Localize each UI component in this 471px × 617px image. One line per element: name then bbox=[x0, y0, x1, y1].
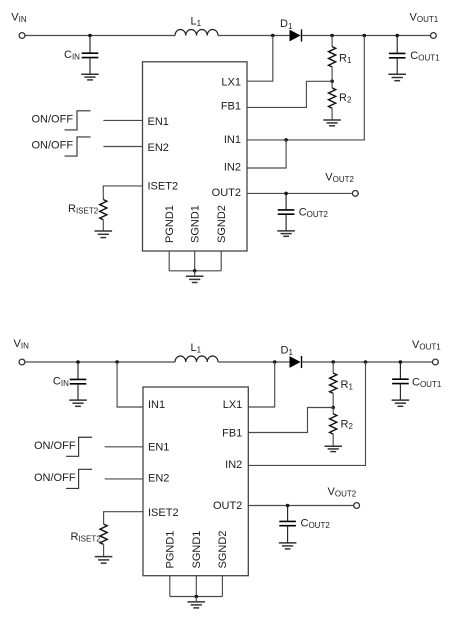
junction: LX1 riser node (bottom) bbox=[273, 360, 277, 364]
label COUT2 (top) bbox=[299, 206, 329, 219]
wire: EN2 input (top) bbox=[103, 146, 142, 148]
svg-text:IN2: IN2 bbox=[225, 459, 242, 471]
pin label EN2 (top) bbox=[148, 142, 169, 154]
pin label PGND1 (bottom) bbox=[165, 531, 177, 569]
svg-text:EN2: EN2 bbox=[148, 142, 169, 154]
label D1 (top) bbox=[280, 18, 293, 31]
junction: IN1 riser node (bottom) bbox=[115, 360, 119, 364]
signal ON/OFF for EN2 (bottom) bbox=[34, 469, 92, 488]
wire: R1 top stem (bottom) bbox=[332, 362, 334, 373]
junction: ground bus node (bottom) bbox=[195, 595, 199, 599]
capacitor COUT1 (bottom) bbox=[392, 362, 409, 400]
wire: OUT2 pin to terminal (bottom) bbox=[248, 505, 353, 507]
node VOUT1 label (bottom) bbox=[412, 339, 441, 352]
terminal VIN (bottom) bbox=[19, 359, 25, 365]
diode D1 (top) bbox=[290, 29, 302, 41]
svg-text:FB1: FB1 bbox=[222, 428, 242, 440]
wire: IN1 pin to rail (bottom) bbox=[117, 362, 143, 407]
junction: LX1 riser node (top) bbox=[271, 34, 275, 38]
svg-text:ISET2: ISET2 bbox=[148, 180, 179, 192]
svg-text:OUT2: OUT2 bbox=[213, 500, 242, 512]
junction: ground bus node (top) bbox=[193, 269, 197, 273]
terminal VOUT1 (top) bbox=[431, 33, 437, 39]
pin label EN1 (bottom) bbox=[148, 442, 169, 454]
svg-text:L1: L1 bbox=[191, 16, 202, 29]
svg-text:FB1: FB1 bbox=[221, 100, 241, 112]
wire: R2 top stem (top) bbox=[331, 81, 333, 88]
diode D1 (bottom) bbox=[290, 356, 302, 368]
label COUT1 (top) bbox=[410, 50, 440, 63]
pin label FB1 (bottom) bbox=[222, 428, 242, 440]
pin label SGND2 (bottom) bbox=[217, 531, 229, 569]
wire: IN2 pin to IN1 wire (top) bbox=[247, 140, 286, 168]
wire: ground bus (top) bbox=[169, 270, 221, 272]
resistor RISET2 (bottom) bbox=[100, 524, 107, 544]
node VIN label (top) bbox=[11, 11, 27, 24]
wire: EN1 input (bottom) bbox=[105, 446, 143, 448]
pin label FB1 (top) bbox=[221, 100, 241, 112]
capacitor CIN (top) bbox=[82, 36, 99, 75]
wire: R2 bottom stem (bottom) bbox=[332, 434, 334, 446]
junction: COUT2 node (top) bbox=[284, 192, 288, 196]
label R1 (top) bbox=[339, 53, 352, 66]
resistor R2 (top) bbox=[329, 88, 336, 108]
svg-text:OUT2: OUT2 bbox=[212, 187, 241, 199]
label RISET2 (top) bbox=[68, 203, 99, 216]
signal ON/OFF for EN1 (bottom) bbox=[34, 437, 92, 456]
pin label LX1 (bottom) bbox=[223, 399, 243, 411]
junction: R1 top node (bottom) bbox=[331, 360, 335, 364]
wire: IN2 pin to rail (bottom) bbox=[248, 362, 365, 465]
wire: ISET2 pin to RISET2 (bottom) bbox=[104, 512, 143, 524]
capacitor COUT2 (top) bbox=[278, 193, 295, 231]
svg-text:EN2: EN2 bbox=[148, 473, 169, 485]
wire: VIN rail to inductor (top) bbox=[25, 35, 175, 37]
pin label OUT2 (bottom) bbox=[213, 500, 242, 512]
svg-text:COUT1: COUT1 bbox=[410, 50, 440, 63]
terminal VIN (top) bbox=[19, 33, 25, 39]
junction: R1-R2 divider node (top) bbox=[330, 80, 334, 84]
svg-text:VOUT1: VOUT1 bbox=[412, 339, 441, 352]
wire: IN1 pin to rail (top) bbox=[247, 36, 364, 140]
svg-text:ON/OFF: ON/OFF bbox=[34, 472, 76, 484]
inductor L1 (top) bbox=[175, 30, 218, 36]
junction: COUT2 node (bottom) bbox=[286, 504, 290, 508]
svg-text:D1: D1 bbox=[280, 18, 293, 31]
node VIN label (bottom) bbox=[14, 338, 30, 351]
svg-text:L1: L1 bbox=[191, 342, 202, 355]
junction: R1 top node (top) bbox=[330, 34, 334, 38]
svg-text:SGND1: SGND1 bbox=[190, 205, 202, 243]
svg-text:SGND1: SGND1 bbox=[191, 531, 203, 569]
svg-text:ON/OFF: ON/OFF bbox=[34, 440, 76, 452]
terminal VOUT1 (bottom) bbox=[433, 359, 439, 365]
wire: SGND1 stub (bottom) bbox=[195, 576, 197, 597]
svg-text:ON/OFF: ON/OFF bbox=[32, 140, 74, 152]
label R1 (bottom) bbox=[341, 379, 354, 392]
IC U1 block (top) bbox=[143, 62, 248, 251]
pin label EN2 (bottom) bbox=[148, 473, 169, 485]
svg-text:R2: R2 bbox=[341, 419, 354, 432]
ground: COUT1 (top) bbox=[388, 74, 406, 80]
pin label LX1 (top) bbox=[221, 76, 241, 88]
label RISET2 (bottom) bbox=[71, 531, 102, 544]
pin label IN1 (bottom) bbox=[148, 399, 165, 411]
wire: OUT2 pin to terminal (top) bbox=[247, 192, 352, 194]
svg-text:IN2: IN2 bbox=[224, 162, 241, 174]
wire: PGND1 stub (bottom) bbox=[169, 576, 171, 597]
label CIN (top) bbox=[64, 49, 80, 62]
wire: inductor to diode anode (top) bbox=[218, 35, 290, 37]
junction: IN2 riser node (bottom) bbox=[364, 360, 368, 364]
svg-text:R1: R1 bbox=[341, 379, 354, 392]
IC U1 block (bottom) bbox=[143, 387, 248, 576]
svg-text:VIN: VIN bbox=[14, 338, 30, 351]
capacitor CIN (bottom) bbox=[70, 362, 87, 400]
junction: CIN node (bottom) bbox=[76, 360, 80, 364]
ground: RISET2 (top) bbox=[95, 231, 113, 238]
svg-text:R2: R2 bbox=[339, 92, 352, 105]
wire: R2 top stem (bottom) bbox=[332, 408, 334, 414]
pin label IN1 (top) bbox=[224, 134, 241, 146]
svg-text:CIN: CIN bbox=[64, 49, 80, 62]
pin label EN1 (top) bbox=[148, 116, 169, 128]
svg-text:VOUT2: VOUT2 bbox=[325, 171, 354, 184]
ground: COUT2 (top) bbox=[277, 231, 295, 236]
svg-text:LX1: LX1 bbox=[221, 76, 241, 88]
svg-text:COUT1: COUT1 bbox=[412, 377, 442, 390]
wire: SGND1 stub (top) bbox=[194, 251, 196, 271]
terminal VOUT2 (bottom) bbox=[354, 503, 360, 509]
junction: IN1 riser node (top) bbox=[363, 34, 367, 38]
resistor R2 (bottom) bbox=[330, 414, 337, 434]
label D1 (bottom) bbox=[281, 345, 294, 358]
resistor RISET2 (top) bbox=[100, 200, 107, 220]
ground: COUT2 (bottom) bbox=[279, 543, 297, 549]
junction: COUT1 node (bottom) bbox=[399, 360, 403, 364]
label COUT2 (bottom) bbox=[301, 518, 331, 531]
wire: diode to VOUT1 terminal (top) bbox=[302, 35, 430, 37]
svg-text:IN1: IN1 bbox=[224, 134, 241, 146]
svg-text:RISET2: RISET2 bbox=[68, 203, 99, 216]
wire: divider to FB1 pin (bottom) bbox=[248, 408, 333, 433]
resistor R1 (bottom) bbox=[330, 373, 337, 393]
node VOUT1 label (top) bbox=[410, 11, 439, 24]
svg-text:VOUT2: VOUT2 bbox=[328, 486, 357, 499]
svg-text:EN1: EN1 bbox=[148, 116, 169, 128]
wire: VIN rail to inductor (bottom) bbox=[25, 361, 175, 363]
node VOUT2 label (bottom) bbox=[328, 486, 357, 499]
label L1 (bottom) bbox=[191, 342, 202, 355]
svg-text:SGND2: SGND2 bbox=[217, 531, 229, 569]
wire: ISET2 pin to RISET2 (top) bbox=[103, 186, 142, 200]
wire: ground stem (top) bbox=[194, 271, 196, 277]
pin label PGND1 (top) bbox=[164, 205, 176, 243]
svg-text:PGND1: PGND1 bbox=[164, 205, 176, 243]
wire: EN1 input (top) bbox=[103, 119, 142, 121]
pin label SGND1 (top) bbox=[190, 205, 202, 243]
ground: CIN (top) bbox=[81, 74, 99, 80]
label COUT1 (bottom) bbox=[412, 377, 442, 390]
label R2 (top) bbox=[339, 92, 352, 105]
wire: divider to FB1 pin (top) bbox=[247, 81, 332, 107]
wire: RISET2 to ground (top) bbox=[102, 220, 104, 231]
svg-text:PGND1: PGND1 bbox=[165, 531, 177, 569]
label R2 (bottom) bbox=[341, 419, 354, 432]
ground: IC grounds (bottom) bbox=[188, 602, 206, 608]
capacitor COUT1 (top) bbox=[389, 36, 406, 75]
svg-text:RISET2: RISET2 bbox=[71, 531, 102, 544]
ground: COUT1 (bottom) bbox=[392, 400, 410, 406]
wire: inductor to diode anode (bottom) bbox=[218, 361, 290, 363]
wire: diode to VOUT1 terminal (bottom) bbox=[302, 361, 432, 363]
signal ON/OFF for EN2 (top) bbox=[32, 137, 91, 156]
pin label ISET2 (top) bbox=[148, 180, 179, 192]
capacitor COUT2 (bottom) bbox=[279, 506, 296, 543]
wire: R2 bottom stem (top) bbox=[331, 108, 333, 120]
wire: EN2 input (bottom) bbox=[105, 478, 143, 480]
svg-text:R1: R1 bbox=[339, 53, 352, 66]
junction: COUT1 node (top) bbox=[395, 34, 399, 38]
pin label ISET2 (bottom) bbox=[148, 507, 179, 519]
wire: R1 bottom stem (top) bbox=[331, 67, 333, 81]
svg-text:SGND2: SGND2 bbox=[216, 205, 228, 243]
label CIN (bottom) bbox=[53, 376, 69, 389]
ground: R2 (top) bbox=[323, 120, 341, 126]
svg-text:IN1: IN1 bbox=[148, 399, 165, 411]
wire: ground bus (bottom) bbox=[170, 596, 223, 598]
terminal VOUT2 (top) bbox=[352, 191, 358, 197]
svg-text:COUT2: COUT2 bbox=[301, 518, 331, 531]
svg-text:VOUT1: VOUT1 bbox=[410, 11, 439, 24]
wire: LX1 pin to rail (bottom) bbox=[248, 362, 274, 407]
svg-text:VIN: VIN bbox=[11, 11, 27, 24]
label L1 (top) bbox=[191, 16, 202, 29]
svg-text:LX1: LX1 bbox=[223, 399, 243, 411]
junction: CIN node (top) bbox=[88, 34, 92, 38]
pin label SGND2 (top) bbox=[216, 205, 228, 243]
wire: LX1 pin to rail (top) bbox=[247, 36, 273, 82]
ground: IC grounds (top) bbox=[186, 276, 204, 282]
wire: R1 bottom stem (bottom) bbox=[332, 393, 334, 407]
pin label IN2 (bottom) bbox=[225, 459, 242, 471]
wire: ground stem (bottom) bbox=[195, 597, 197, 602]
junction: R1-R2 divider node (bottom) bbox=[331, 406, 335, 410]
signal ON/OFF for EN1 (top) bbox=[32, 111, 91, 130]
svg-text:COUT2: COUT2 bbox=[299, 206, 329, 219]
wire: SGND2 stub (bottom) bbox=[221, 576, 223, 597]
wire: R1 top stem (top) bbox=[331, 36, 333, 47]
node VOUT2 label (top) bbox=[325, 171, 354, 184]
wire: SGND2 stub (top) bbox=[220, 251, 222, 271]
pin label IN2 (top) bbox=[224, 162, 241, 174]
svg-text:D1: D1 bbox=[281, 345, 294, 358]
svg-text:EN1: EN1 bbox=[148, 442, 169, 454]
inductor L1 (bottom) bbox=[175, 356, 218, 362]
wire: RISET2 to ground (bottom) bbox=[103, 544, 105, 556]
svg-text:ISET2: ISET2 bbox=[148, 507, 179, 519]
ground: RISET2 (bottom) bbox=[95, 557, 113, 564]
pin label SGND1 (bottom) bbox=[191, 531, 203, 569]
wire: PGND1 stub (top) bbox=[168, 251, 170, 271]
svg-text:ON/OFF: ON/OFF bbox=[32, 113, 74, 125]
ground: CIN (bottom) bbox=[69, 400, 87, 406]
ground: R2 (bottom) bbox=[324, 446, 342, 451]
junction: IN2 tap node (top) bbox=[284, 138, 288, 142]
svg-text:CIN: CIN bbox=[53, 376, 69, 389]
pin label OUT2 (top) bbox=[212, 187, 241, 199]
resistor R1 (top) bbox=[329, 47, 336, 67]
